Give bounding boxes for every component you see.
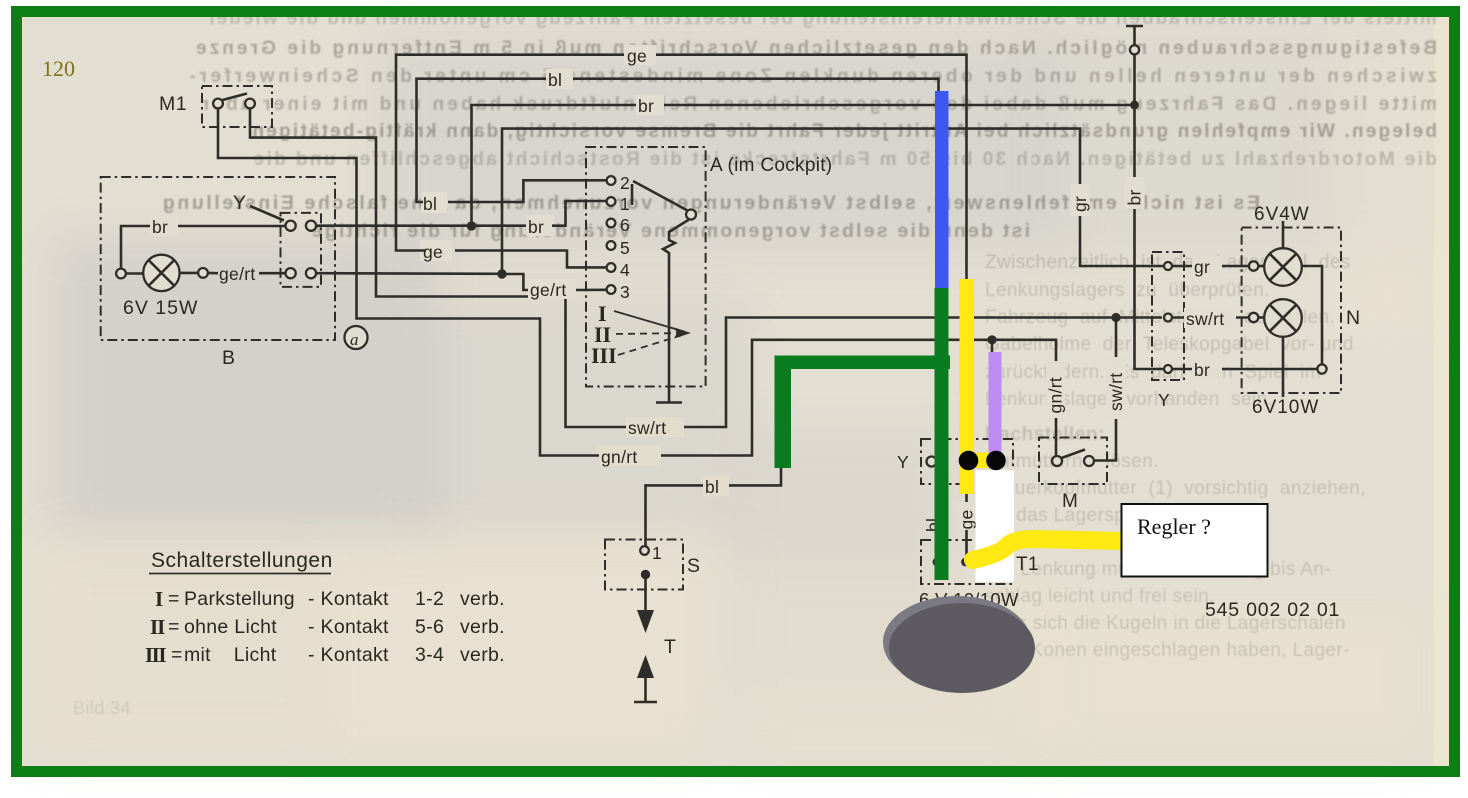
svg-text:M: M	[1062, 491, 1078, 512]
svg-text:verb.: verb.	[460, 644, 505, 666]
wire br step up into contact 1	[552, 201, 606, 226]
node ge/rt junction	[497, 269, 506, 278]
ignition coil T1 box	[921, 540, 1039, 584]
svg-text:III: III	[145, 643, 166, 667]
lamp housing box (position/tail lamps)	[1242, 204, 1361, 418]
svg-text:sw/rt: sw/rt	[1186, 309, 1224, 329]
value label sw/rt (on horizontal wire at S level)	[626, 417, 684, 438]
svg-text:T: T	[664, 636, 676, 658]
switch M1 contacts and lever	[213, 94, 255, 109]
svg-text:ge: ge	[627, 46, 647, 66]
svg-text:5: 5	[620, 238, 630, 258]
wire br vertical to top run and across to right side	[472, 105, 1135, 226]
value label gr (rotated on drop)	[1070, 184, 1090, 216]
svg-text:Y: Y	[1158, 390, 1170, 410]
svg-text:verb.: verb.	[460, 588, 505, 610]
switch position marks I II III with arrow	[591, 301, 691, 368]
svg-text:sw/rt: sw/rt	[628, 418, 666, 438]
svg-text:Y: Y	[897, 452, 909, 472]
value label br (rotated on drop)	[1125, 177, 1145, 209]
svg-text:ge/rt: ge/rt	[530, 280, 567, 300]
terminal T (spark gap style symbol)	[634, 579, 676, 702]
switch A contacts 2 1 6 5 4 3	[607, 173, 630, 302]
node br junction (top right)	[1130, 101, 1139, 110]
INK LAYER	[42, 26, 1361, 702]
svg-text:br: br	[528, 217, 544, 237]
wire drop from gn/rt node to Y unit (covered by purple marker)	[991, 340, 994, 458]
svg-text:- Kontakt: - Kontakt	[308, 644, 389, 666]
marker green vertical (continues blue down to T1)	[935, 288, 949, 580]
node junction sw/rt drop	[1111, 313, 1120, 322]
svg-text:4: 4	[620, 260, 630, 280]
node br junction	[467, 221, 476, 230]
svg-text:3-4: 3-4	[415, 644, 444, 666]
switch S box	[605, 540, 701, 590]
value label bl (on S branch wire)	[703, 475, 729, 497]
headlamp unit B box	[101, 177, 335, 369]
marker green horizontal with left leg	[775, 356, 951, 469]
wire sw/rt net: M1 right contact to lamp N and M switch	[250, 108, 1162, 427]
svg-text:br: br	[1194, 360, 1210, 380]
lamp 6V4W	[1249, 221, 1302, 286]
svg-text:S: S	[687, 555, 701, 577]
svg-text:Y: Y	[233, 192, 247, 214]
value label br (before A contact 1)	[526, 215, 554, 237]
node a (circled)	[345, 326, 368, 349]
svg-text:gr: gr	[1070, 196, 1090, 212]
svg-text:I: I	[155, 587, 163, 611]
switch S contact 1	[640, 543, 662, 563]
wire br drop to lamp return row	[1135, 105, 1164, 369]
svg-text:gn/rt: gn/rt	[1046, 377, 1066, 414]
svg-text:B: B	[222, 347, 236, 369]
switch M box	[1039, 438, 1107, 513]
svg-text:120: 120	[42, 56, 75, 81]
svg-text:bl: bl	[705, 477, 719, 497]
lamp left terminal + wire up to br row	[116, 226, 285, 278]
svg-text:=: =	[171, 644, 183, 666]
value label sw/rt (rotated, on vertical wire)	[1106, 357, 1126, 419]
svg-text:2: 2	[620, 173, 630, 193]
connector unit Y (under lamp drops) box	[897, 439, 1013, 484]
svg-text:1: 1	[620, 194, 630, 214]
svg-text:T1: T1	[1016, 554, 1039, 575]
wire ge net: contact 4 jog, ge label, vertical to top run, right to drop	[455, 251, 606, 268]
svg-text:6V10W: 6V10W	[1252, 397, 1319, 418]
marker yellow bridge between dots	[968, 453, 997, 469]
svg-text:A (im Cockpit): A (im Cockpit)	[710, 155, 832, 176]
svg-text:gn/rt: gn/rt	[601, 447, 638, 467]
svg-text:bl: bl	[423, 194, 437, 214]
value label ge (rotated, above T1)	[957, 502, 977, 530]
wire elbow to ge/rt label and contact 3	[502, 274, 533, 290]
svg-text:M1: M1	[159, 93, 187, 115]
switch S moving contact node	[641, 570, 650, 579]
lamp 6V10W (N)	[1249, 299, 1302, 397]
value label gr (lamp row 1)	[1172, 256, 1248, 277]
value label br (inside B)	[150, 215, 178, 237]
connector Y left contact	[927, 457, 937, 467]
svg-text:1-2: 1-2	[415, 588, 444, 610]
wire ge/rt vertical + top run to gr drop	[502, 129, 1163, 274]
svg-text:bl: bl	[548, 70, 562, 90]
svg-text:5-6: 5-6	[415, 616, 444, 638]
svg-text:1: 1	[652, 543, 662, 563]
svg-text:545 002 02 01: 545 002 02 01	[1205, 599, 1340, 621]
svg-text:ge: ge	[957, 509, 977, 529]
page edge light strip	[1434, 17, 1449, 766]
node junction gn/rt to Y-unit drop	[987, 335, 996, 344]
svg-text:verb.: verb.	[460, 616, 505, 638]
connector Y (handlebar) box right	[1152, 252, 1184, 410]
wire sw/rt drop to M switch	[1095, 318, 1116, 461]
value label sw/rt (lamp row 2)	[1172, 308, 1248, 329]
marker purple (gn/rt drop highlight)	[989, 352, 1002, 453]
grey blob (covered component)	[883, 596, 1035, 693]
wire bl branch to switch S and terminal T	[646, 362, 939, 546]
svg-text:III: III	[591, 343, 617, 368]
svg-text:br: br	[152, 217, 168, 237]
value label br (top run)	[636, 95, 664, 116]
wire br net: B upper contacts to A contact 1 and top run	[316, 224, 552, 227]
value label gn/rt (on horizontal wire)	[599, 445, 661, 467]
switch M1 (brake switch) box	[159, 86, 272, 127]
svg-text:Parkstellung: Parkstellung	[184, 588, 295, 610]
svg-text:Schalterstellungen: Schalterstellungen	[151, 549, 333, 572]
svg-text:ge: ge	[423, 242, 443, 262]
value label br (lamp row 3) + return wire to circle	[1172, 266, 1327, 380]
svg-text:Regler ?: Regler ?	[1137, 514, 1211, 539]
legend Schalterstellungen	[145, 549, 505, 667]
svg-text:3: 3	[620, 282, 630, 302]
switch A (cockpit switch) box	[586, 147, 832, 387]
svg-text:=: =	[168, 616, 180, 638]
svg-text:sw/rt: sw/rt	[1106, 373, 1126, 411]
label Y with pointer line	[233, 192, 284, 221]
wire gn/rt net: M1 left contact to M switch (bottom right)	[218, 108, 1056, 456]
value label ge (top run)	[624, 45, 656, 66]
connector contacts right Y box	[1164, 262, 1172, 373]
connector Y small box (in B)	[281, 213, 322, 287]
svg-text:II: II	[150, 615, 165, 639]
switch A lever and wiper	[632, 181, 696, 403]
value label bl (top run)	[546, 69, 573, 90]
marker blue (bl wire highlight)	[935, 91, 949, 288]
svg-text:N: N	[1346, 307, 1361, 329]
marker yellow curve to Regler box	[973, 539, 1122, 560]
svg-text:ge/rt: ge/rt	[219, 264, 256, 284]
svg-text:ohne Licht: ohne Licht	[184, 616, 277, 638]
svg-text:- Kontakt: - Kontakt	[308, 588, 389, 610]
value label gn/rt (rotated, on vertical wire)	[1046, 361, 1066, 418]
wire bl net: contact 2 jog, bl label, vertical to top run, right to drop	[448, 180, 606, 202]
wire ge/rt net: B lamp row to node, A contact 3, and top run to gr lamp	[316, 272, 498, 275]
T1 contacts	[933, 558, 970, 567]
marker yellow vertical (ge wire highlight)	[960, 279, 975, 494]
connector Y contacts upper pair (in B)	[286, 221, 317, 231]
svg-text:a: a	[350, 330, 359, 349]
MARKER LAYER	[775, 91, 1268, 693]
hand-drawn node dot left	[959, 451, 979, 471]
white-out patch	[976, 470, 1015, 582]
svg-text:=: =	[168, 588, 180, 610]
svg-text:br: br	[638, 96, 654, 116]
terminal 31 T-bar with connector (top right)	[1126, 26, 1143, 105]
svg-text:br: br	[1125, 189, 1145, 205]
svg-text:- Kontakt: - Kontakt	[308, 616, 389, 638]
svg-text:6V 15W: 6V 15W	[123, 297, 198, 319]
lamp 6V15W in B	[123, 255, 198, 319]
svg-text:gr: gr	[1194, 257, 1210, 277]
hand-drawn node dot right	[986, 451, 1006, 471]
switch M contacts and lever	[1052, 450, 1094, 467]
svg-text:6: 6	[620, 215, 630, 235]
lamp right terminal, ge/rt label, lower contact pair	[180, 264, 317, 284]
annotation box Regler ?	[1122, 504, 1268, 577]
wire bl lower segment to T1	[937, 466, 940, 558]
svg-text:mit Licht: mit Licht	[184, 644, 277, 666]
